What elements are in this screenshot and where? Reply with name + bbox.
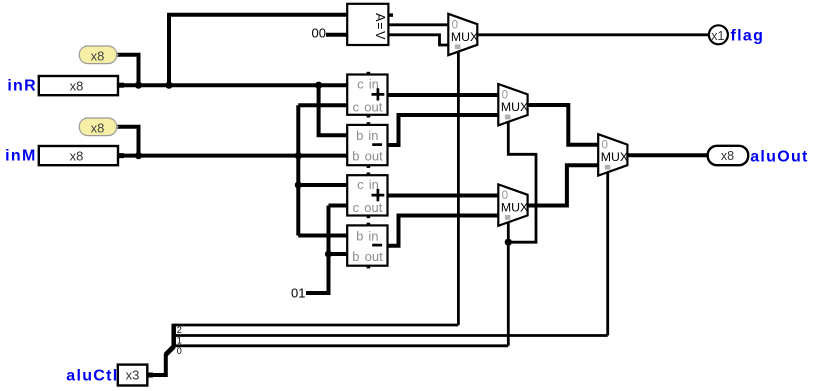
subtractor S2 (b in / - / b out) (347, 223, 387, 269)
wire splitter line bit 2 (174, 324, 459, 327)
wire subtractor S2 output to MUX3 input 1 (388, 216, 499, 246)
mux MUX4 (output select) (598, 134, 628, 175)
svg-text:b in: b in (356, 128, 378, 143)
svg-text:inR: inR (7, 78, 37, 95)
wire adder A1 output to MUX2 input 0 (388, 93, 499, 97)
svg-text:x8: x8 (91, 48, 105, 63)
wire inM vertical distribution (296, 105, 300, 235)
svg-text:x3: x3 (126, 368, 140, 383)
wire adder A2 output to MUX3 input 0 (388, 194, 499, 198)
wire splitter line bit 1 (174, 334, 608, 337)
wire inM to adder A1 input B (298, 103, 347, 107)
svg-text:1: 1 (177, 336, 182, 346)
wire inM bus: pin to subtractor S1 input B (118, 154, 347, 158)
wire tag1 to inR bus (117, 55, 138, 85)
junction dots (135, 82, 512, 258)
wire splitter line bit 0 (174, 344, 509, 347)
node inM-tag2 (135, 152, 142, 159)
wire aluCtl pin to splitter (147, 354, 166, 376)
svg-text:x8: x8 (91, 120, 105, 135)
svg-text:x1: x1 (711, 29, 724, 43)
svg-text:00: 00 (312, 26, 326, 41)
splitter SP1 (166, 324, 174, 355)
wire inM to adder A2 input A (298, 183, 347, 187)
svg-text:0: 0 (177, 346, 182, 356)
wire subtractor S1 output to MUX2 input 1 (388, 115, 499, 145)
wire inR branch down to subtractor S1 input A (319, 85, 348, 135)
comparator U1 (A = V) (347, 4, 393, 45)
svg-text:x8: x8 (70, 148, 84, 163)
wire inR bus: pin to adder1 input A (118, 83, 347, 87)
wire comparator output 2 to MUX1 input 1 (388, 35, 448, 45)
svg-text:MUX: MUX (501, 200, 528, 214)
svg-text:c out: c out (353, 200, 383, 215)
pin aluCtl (66, 365, 153, 386)
wire MUX4 select down to splitter line 1 (606, 172, 609, 335)
wire select net down to splitter line 0 (507, 242, 510, 346)
svg-text:c in: c in (357, 76, 379, 91)
wire MUX3 select stub (507, 222, 510, 242)
wire MUX1 select down to splitter line 2 (457, 52, 460, 325)
mux MUX3 (inc/dec select) (498, 184, 528, 225)
pin flag (output) (709, 25, 764, 44)
wire 01 to subtractor S2 input B (329, 252, 348, 256)
wire MUX1 output to flag pin (477, 33, 709, 36)
wire inR branch up to comparator input A (169, 15, 347, 85)
svg-text:aluCtl: aluCtl (66, 368, 118, 385)
svg-text:c out: c out (353, 99, 383, 114)
adder A1 (c in / + / c out) (347, 72, 387, 118)
node inM vertical (295, 152, 302, 159)
node inR-sub1 branch (315, 82, 322, 89)
node 01-sub2 (325, 250, 332, 257)
mux MUX1 (flag select) (448, 14, 478, 55)
svg-text:x8: x8 (70, 78, 84, 93)
svg-text:flag: flag (731, 28, 765, 45)
pin inR (7, 76, 124, 95)
wire tag2 to inM bus (117, 127, 138, 156)
node inR-tag1 (135, 82, 142, 89)
wire 01 to adder A2 input B (329, 204, 348, 208)
svg-text:b out: b out (352, 249, 383, 264)
svg-text:x8: x8 (721, 149, 734, 163)
wire MUX4 output to aluOut pin (627, 153, 707, 157)
mux MUX2 (add/sub select) (498, 84, 528, 125)
svg-text:MUX: MUX (601, 150, 628, 164)
svg-text:2: 2 (177, 325, 182, 335)
wire comparator output 1 to MUX1 input 0 (388, 23, 448, 26)
svg-text:b out: b out (352, 148, 383, 163)
adder A2 (c in / + / c out) (347, 173, 387, 219)
pin aluOut (output) (708, 146, 809, 166)
pin inM (5, 146, 124, 165)
svg-text:aluOut: aluOut (750, 149, 808, 166)
svg-text:A = V: A = V (373, 13, 387, 40)
wire constant 01 vertical distribution (306, 206, 329, 294)
svg-text:01: 01 (291, 286, 305, 301)
svg-text:MUX: MUX (501, 100, 528, 114)
svg-text:MUX: MUX (451, 30, 478, 44)
wire MUX2 select jog (508, 122, 536, 242)
node inM-adder2 (295, 181, 302, 188)
wire MUX2 output to MUX4 input 0 (528, 105, 599, 145)
node inR-comparator branch (165, 82, 172, 89)
wire constant 00 to comparator input B (326, 33, 347, 37)
node select bit0 (505, 239, 512, 246)
tunnel tag x8 (inM) (79, 118, 118, 136)
subtractor S1 (b in / - / b out) (347, 122, 387, 168)
wire MUX3 output to MUX4 input 1 (528, 165, 599, 205)
svg-text:inM: inM (5, 147, 36, 164)
svg-text:b in: b in (356, 228, 378, 243)
wire inM to subtractor S2 input A (298, 234, 347, 238)
svg-text:c in: c in (357, 177, 379, 192)
tunnel tag x8 (inR) (79, 46, 118, 64)
